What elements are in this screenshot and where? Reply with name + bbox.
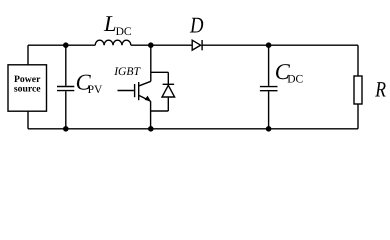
svg-text:D: D (189, 13, 203, 38)
resistor R box (354, 76, 362, 104)
wire freewheel diode upper lead (167, 72, 169, 85)
node bottom C_PV junction (63, 126, 69, 132)
IGBT gate bar (134, 84, 136, 97)
wire freewheel diode top connector (151, 71, 169, 73)
svg-text:IGBT: IGBT (113, 65, 141, 78)
capacitor C_DC plates (260, 86, 278, 88)
wire IGBT collector riser (150, 45, 152, 81)
svg-text:DC: DC (287, 74, 303, 86)
freewheel diode cathode bar (163, 83, 175, 85)
IGBT collector diagonal (139, 81, 151, 86)
wire right rail upper (357, 45, 359, 76)
node top C_DC junction (266, 42, 272, 48)
node bottom C_DC junction (266, 126, 272, 132)
IGBT gate lead (118, 90, 134, 92)
wire top rail right segment (202, 44, 358, 46)
wire C_DC lower lead (268, 91, 270, 128)
freewheel diode triangle (162, 85, 175, 97)
node top C_PV junction (63, 42, 69, 48)
wire freewheel diode bottom connector (151, 110, 169, 112)
node bottom IGBT junction (148, 126, 154, 132)
svg-text:source: source (14, 83, 41, 94)
IGBT emitter arrowhead (145, 96, 151, 102)
diode D cathode bar (201, 40, 203, 50)
node top IGBT junction (148, 42, 154, 48)
wire freewheel diode lower lead (167, 97, 169, 111)
diode D triangle (192, 40, 200, 50)
capacitor C_PV plates (57, 86, 74, 88)
svg-text:L: L (103, 11, 117, 36)
wire C_PV upper lead (65, 45, 67, 86)
wire C_DC upper lead (268, 45, 270, 86)
svg-text:DC: DC (116, 26, 132, 38)
IGBT body bar (138, 82, 140, 100)
wire bottom rail (28, 128, 358, 130)
wire IGBT emitter drop (150, 101, 152, 129)
power source box (8, 65, 47, 111)
wire C_PV lower lead (65, 91, 67, 129)
wire top rail middle segment (131, 44, 192, 46)
wire left rail lower (27, 111, 29, 129)
svg-text:PV: PV (88, 84, 103, 96)
wire right rail lower (357, 104, 359, 129)
wire left rail upper (27, 45, 29, 65)
svg-text:R: R (374, 76, 386, 101)
IGBT emitter diagonal (139, 96, 150, 102)
wire top rail left segment (28, 44, 95, 46)
inductor L_DC coils (95, 40, 131, 45)
